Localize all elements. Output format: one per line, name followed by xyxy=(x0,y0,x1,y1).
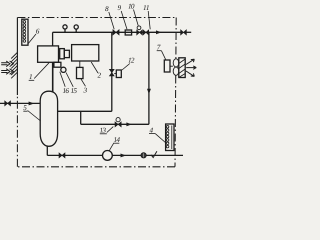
bypass horizontal line xyxy=(81,123,149,125)
label 7 xyxy=(157,45,166,60)
vessel outlet stem xyxy=(46,146,48,155)
label 3 xyxy=(81,79,87,93)
label 6 xyxy=(28,29,39,44)
fan impeller xyxy=(170,59,179,75)
device 3 (box under motor) xyxy=(77,61,84,79)
pressure gauge G2 xyxy=(74,25,78,32)
flow arrow on inlet pipe xyxy=(29,102,35,106)
pressure gauge G1 xyxy=(63,25,67,33)
wall hatching xyxy=(11,53,17,79)
label 16 xyxy=(60,72,69,93)
valve 8 xyxy=(113,30,119,35)
label 13 xyxy=(100,127,114,134)
label 10 xyxy=(128,4,138,26)
fan motor of condenser 7 xyxy=(164,60,170,72)
discharge pipe (top main) xyxy=(53,31,181,33)
heat exchanger 4 (finned element) xyxy=(166,124,174,151)
air outflow arrows xyxy=(186,59,196,76)
label 2 xyxy=(91,62,101,78)
shut-off valve at line exit xyxy=(181,30,187,35)
valve 11 xyxy=(143,30,149,35)
suction pipe compressor to vessel xyxy=(52,62,54,92)
pump 14 xyxy=(103,151,113,161)
inlet valve xyxy=(5,101,11,106)
enclosure boundary (dash-dot room outline) xyxy=(17,18,176,167)
label 11 xyxy=(143,5,150,29)
flow arrow on bypass line xyxy=(126,122,131,126)
solenoid valve 12 xyxy=(109,69,121,77)
flow arrow after pump xyxy=(121,154,127,158)
check valve xyxy=(151,151,157,157)
control valve 13 xyxy=(115,118,121,127)
filter 9 xyxy=(125,30,131,35)
oil unit 15 (round element) xyxy=(61,67,66,72)
bottom valve xyxy=(59,153,65,158)
label 15 xyxy=(66,73,77,94)
discharge riser from compressor 1 xyxy=(52,32,54,46)
bottom liquid pipe xyxy=(47,154,183,156)
bypass step riser xyxy=(80,111,82,124)
air inflow arrow A xyxy=(1,61,13,67)
liquid inlet pipe (left) xyxy=(0,102,40,104)
air inflow arrow B xyxy=(1,69,13,75)
compressor 1 xyxy=(38,46,59,62)
label 5 xyxy=(23,105,40,121)
coupling xyxy=(60,49,70,59)
exit pipe stub xyxy=(186,31,191,33)
receiver vessel 5 xyxy=(40,91,57,146)
label 12 xyxy=(122,58,134,70)
label 9 xyxy=(118,5,127,29)
bypass riser (hot line down) xyxy=(148,32,150,124)
suction/equalizing line (vessel to valve 12 riser) xyxy=(58,110,112,112)
flow arrow on discharge pipe xyxy=(156,30,162,34)
oil unit 16 (box under compressor) xyxy=(54,62,61,67)
down arrow on bypass riser xyxy=(147,89,151,95)
label 4 xyxy=(149,128,165,143)
valve 10 with pilot xyxy=(137,26,143,35)
label 8 xyxy=(105,6,114,29)
label 1 xyxy=(29,63,49,81)
label 14 xyxy=(109,137,120,150)
motor 2 xyxy=(72,45,99,61)
flow meter xyxy=(141,153,146,158)
condenser coil 7 (hatched) xyxy=(179,58,185,78)
air cooler 6 (finned element) xyxy=(22,19,28,45)
valve 12 riser xyxy=(111,32,113,111)
